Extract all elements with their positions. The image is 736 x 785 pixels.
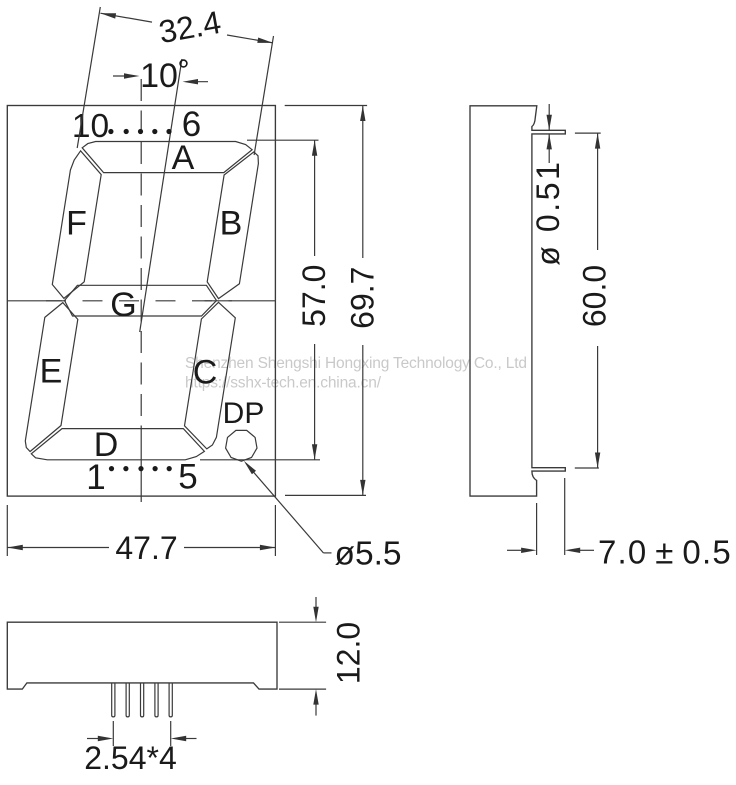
svg-text:10: 10: [140, 57, 178, 95]
svg-text:F: F: [66, 205, 87, 243]
dim 32.4 line right part: [227, 35, 273, 43]
dim 10deg right arrow: [187, 81, 208, 83]
dim 10deg left arrow: [113, 75, 134, 77]
dim 57.0 ext bottom (collinear with D bottom): [200, 459, 320, 461]
dim 69.7 line: [362, 106, 364, 259]
bottom view pins: [112, 683, 115, 717]
segment C: [185, 302, 236, 449]
segment F: [52, 151, 101, 299]
dim 60.0 ext bottom: [575, 467, 599, 469]
dim 12.0 ext bottom: [279, 688, 326, 690]
svg-text:C: C: [193, 354, 218, 392]
svg-text:1: 1: [86, 458, 105, 497]
svg-text:47.7: 47.7: [115, 530, 177, 566]
dim 32.4 line left part: [100, 13, 152, 22]
svg-text:60.0: 60.0: [577, 265, 613, 327]
dim 32.4 extension line left: [77, 7, 100, 148]
dim dia0.51 line top: [548, 104, 550, 130]
dim dia0.51 line bottom: [548, 134, 550, 163]
centerline vertical solid bottom: [140, 446, 142, 502]
dim 7.0 ext right: [564, 478, 566, 555]
dim 47.7 ext left: [6, 505, 8, 556]
segment B: [207, 152, 258, 299]
dim 57.0 ext top: [247, 139, 319, 141]
dim 57.0 line: [314, 140, 316, 256]
dim 60.0 line: [597, 133, 599, 250]
dim 47.7 ext right: [274, 505, 276, 556]
svg-text:G: G: [110, 286, 136, 324]
svg-text:B: B: [220, 205, 243, 243]
side view outline: [470, 106, 565, 496]
segment D: [31, 429, 204, 460]
svg-text:DP: DP: [223, 397, 265, 430]
dim 12.0 ext top: [279, 621, 326, 623]
decimal point DP octagon: [226, 430, 257, 461]
svg-text:12.0: 12.0: [331, 622, 367, 684]
dim 7.0 ext left: [536, 503, 538, 555]
segment G: [65, 285, 217, 316]
svg-text:ø 0.51: ø 0.51: [530, 159, 566, 265]
bottom view outline: [7, 622, 277, 689]
dim 2.54 ext left: [112, 721, 114, 746]
svg-text:10: 10: [72, 108, 109, 145]
bottom pin dots: [109, 466, 114, 471]
svg-text:5: 5: [178, 458, 197, 497]
svg-text:ø5.5: ø5.5: [335, 536, 402, 573]
slanted 10deg center line: [140, 59, 182, 332]
top pin dots: [108, 129, 113, 134]
svg-text:57.0: 57.0: [296, 265, 332, 327]
dim 69.7 ext bottom: [285, 494, 366, 496]
front view body outline: [7, 106, 275, 497]
dim 12.0 arrows: [315, 597, 317, 611]
dim 2.54 arrows: [87, 738, 99, 740]
svg-text:7.0 ± 0.5: 7.0 ± 0.5: [598, 534, 732, 571]
svg-text:Shenzhen Shengshi Hongxing Tec: Shenzhen Shengshi Hongxing Technology Co…: [185, 355, 527, 372]
svg-text:2.54*4: 2.54*4: [84, 740, 177, 776]
svg-text:E: E: [40, 353, 63, 391]
front view mid seam line left: [7, 300, 62, 302]
svg-text:69.7: 69.7: [345, 267, 381, 329]
centerline horizontal dashed: [46, 300, 232, 302]
centerline vertical dashed: [140, 79, 142, 446]
dim 32.4 extension line right: [254, 36, 273, 155]
svg-text:A: A: [172, 139, 195, 177]
svg-text:6: 6: [182, 105, 201, 144]
front view mid seam line right: [205, 300, 276, 302]
dim 69.7 ext top: [285, 105, 367, 107]
dim 2.54 ext right: [170, 721, 172, 746]
segment E: [25, 303, 78, 452]
dim 60.0 ext top: [575, 132, 601, 134]
dim 7.0 arrows: [507, 549, 521, 551]
leader dia5.5 line: [246, 463, 323, 553]
segment A: [82, 142, 252, 173]
dim 47.7 line: [7, 547, 109, 549]
